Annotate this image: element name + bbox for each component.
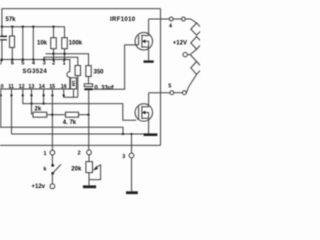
ground bar Q1 source bbox=[144, 60, 154, 62]
node dot rail-10k bbox=[52, 26, 54, 28]
wire terminal 3 bbox=[131, 134, 133, 153]
wire lower bus pin3 to R bbox=[44, 57, 78, 65]
node dot bus-10k bbox=[52, 53, 54, 55]
potentiometer 20k bbox=[86, 155, 101, 186]
svg-text:+12V: +12V bbox=[173, 41, 187, 47]
svg-text:4: 4 bbox=[169, 23, 172, 29]
svg-text:2: 2 bbox=[78, 150, 81, 156]
wire left border segment bbox=[1, 9, 3, 27]
wire pin12 line A to bottom gate bbox=[23, 95, 136, 120]
wire pin15 to terminal 1 bbox=[51, 95, 53, 150]
wire pin10 down bbox=[0, 95, 2, 127]
node dots on IC top edge bbox=[1, 58, 66, 60]
capacitor 0.33uf bbox=[84, 84, 92, 90]
supply circle +12v bbox=[50, 184, 55, 189]
node dot term1-rail bbox=[51, 114, 53, 116]
svg-text:1: 1 bbox=[44, 151, 47, 157]
ground bar bottom bbox=[126, 191, 138, 194]
wire top gate branch bbox=[93, 45, 139, 89]
connector circle 4b bbox=[182, 17, 186, 21]
wire ground rail lower bbox=[12, 133, 151, 135]
svg-text:6: 6 bbox=[11, 61, 14, 67]
svg-text:3: 3 bbox=[122, 154, 125, 160]
svg-text:12: 12 bbox=[19, 84, 25, 90]
terminal 1 circle bbox=[50, 150, 55, 155]
wire center tap bbox=[187, 49, 196, 54]
svg-text:3: 3 bbox=[43, 61, 46, 67]
wire pin4 to rail bbox=[32, 27, 34, 60]
terminal 2 circle bbox=[87, 150, 92, 155]
svg-text:20k: 20k bbox=[71, 167, 82, 173]
switch k bbox=[51, 155, 61, 184]
svg-text:SG3524: SG3524 bbox=[23, 69, 48, 75]
capacitor CT pin7 bbox=[0, 27, 7, 60]
connector circle 5b bbox=[182, 91, 186, 95]
terminal 3 circle bbox=[129, 153, 134, 158]
wire right border of inverter box bbox=[160, 9, 162, 146]
resistor 57k bbox=[10, 27, 15, 60]
svg-text:5: 5 bbox=[21, 61, 24, 67]
node dot lineA-pin14 bbox=[42, 102, 44, 104]
wire pin14 down bbox=[43, 95, 45, 103]
node dot bus-100k bbox=[63, 53, 65, 55]
svg-text:1: 1 bbox=[63, 61, 66, 67]
transistor Q2 bottom bbox=[135, 93, 153, 134]
wire term3 to ground bbox=[131, 158, 133, 191]
svg-text:4: 4 bbox=[32, 61, 35, 67]
pin stubs bottom with dots bbox=[0, 89, 65, 97]
winding diamond 1 bbox=[191, 23, 203, 35]
wire pin13 down bbox=[31, 95, 33, 103]
component small box 1M beside IC bbox=[70, 78, 76, 97]
resistor 350 bbox=[86, 66, 91, 77]
wire top +12V rail bbox=[1, 8, 160, 10]
node dot rail-pin5 bbox=[22, 26, 24, 28]
wire cap column to terminal 2 bbox=[88, 90, 90, 150]
resistor 2k bbox=[32, 104, 53, 118]
svg-text:k: k bbox=[44, 167, 47, 173]
connector circle center tap bbox=[183, 52, 187, 56]
ground bar under pot bbox=[83, 185, 96, 188]
svg-text:0. 33uf: 0. 33uf bbox=[95, 85, 115, 91]
wire terminal 5 line bbox=[149, 92, 170, 94]
svg-text:2: 2 bbox=[52, 61, 55, 67]
connector circle 5a bbox=[170, 91, 174, 95]
svg-text:5: 5 bbox=[168, 84, 171, 90]
svg-text:4. 7k: 4. 7k bbox=[63, 120, 77, 126]
svg-text:10k: 10k bbox=[37, 41, 48, 47]
wire pin11 down bbox=[11, 95, 13, 134]
wire between 4 circles bbox=[173, 18, 181, 20]
wire tap to diamond 3 bbox=[190, 55, 196, 62]
wire ground rail upper bbox=[0, 127, 123, 134]
wire terminal 4 line bbox=[149, 18, 170, 20]
wire 350 to cap bbox=[88, 77, 90, 84]
node dot rail merge bbox=[122, 133, 124, 135]
wire pin16 jog bbox=[64, 95, 78, 97]
winding diamond 3 bbox=[191, 62, 203, 75]
svg-text:+12v: +12v bbox=[32, 184, 46, 190]
wire Vref rail bbox=[1, 27, 65, 38]
winding diamond 2 bbox=[191, 37, 203, 50]
resistor 10k bbox=[51, 27, 57, 60]
wire winding bottom lead bbox=[186, 74, 196, 92]
wire between 5 circles bbox=[174, 92, 183, 94]
resistor 4.7k bbox=[52, 112, 88, 117]
node dot rail-pin4 bbox=[32, 26, 34, 28]
node dot cap-rail bbox=[87, 114, 89, 116]
wire upper bus to 350 bbox=[46, 54, 89, 66]
wire to winding top bbox=[185, 19, 196, 23]
node dot rail-left bbox=[1, 26, 3, 28]
svg-text:7: 7 bbox=[0, 61, 3, 67]
svg-text:57k: 57k bbox=[6, 17, 17, 23]
wire bottom border rail bbox=[0, 144, 161, 146]
wire pin5 to rail bbox=[22, 27, 24, 60]
svg-text:350: 350 bbox=[94, 70, 105, 76]
ground bar Q2 source bbox=[144, 133, 158, 136]
svg-text:100k: 100k bbox=[69, 41, 83, 47]
svg-text:IRF1010: IRF1010 bbox=[110, 17, 136, 23]
svg-text:1M: 1M bbox=[71, 80, 76, 86]
transistor Q1 IRF1010 top bbox=[135, 19, 153, 60]
resistor right of IC (pin16 branch) bbox=[75, 66, 80, 98]
resistor 100k bbox=[62, 38, 68, 60]
node dot lineA-pin13 bbox=[30, 102, 32, 104]
node dot rail-57k bbox=[11, 26, 13, 28]
connector circle 4a bbox=[169, 17, 173, 21]
svg-text:2k: 2k bbox=[35, 106, 42, 112]
op-amp IC U1 SG3524 body bbox=[0, 60, 70, 90]
node dot term3 tap bbox=[130, 133, 132, 135]
